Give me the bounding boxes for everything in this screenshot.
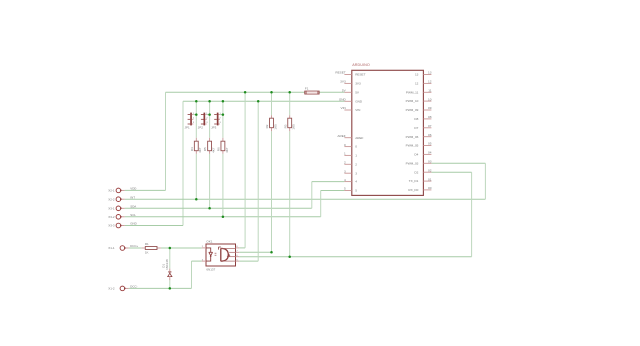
svg-text:01: 01 [428,177,432,181]
svg-text:12: 12 [415,81,419,85]
junction [208,100,211,103]
wire SCL row [125,216,321,218]
svg-text:5: 5 [355,189,357,193]
OK1 pin 7 [236,251,240,253]
ARDUINO pin 3V3 [340,80,361,86]
svg-text:3: 3 [344,169,346,173]
junction [195,100,198,103]
resistor R5 [203,138,215,154]
svg-text:PWM_10: PWM_10 [406,99,419,103]
svg-text:D8: D8 [414,117,418,121]
svg-text:X3-2: X3-2 [108,215,115,219]
svg-text:ARDUINO: ARDUINO [352,63,370,67]
ARDUINO pin RESET [335,71,365,77]
ARDUINO pin D8 (08) [414,115,431,121]
connector pad X3-1 net SDA [108,204,136,210]
wire VDD riser [165,92,167,190]
svg-text:PWM_11: PWM_11 [406,90,419,94]
svg-text:PWM_06: PWM_06 [406,135,419,139]
svg-text:10: 10 [428,97,432,101]
OK1 pin 8 [236,247,240,249]
wire R3 top [289,92,291,115]
wire R2 bottom to opto pin7 [271,131,273,252]
svg-text:GND: GND [130,222,136,226]
wire DCC+ pad to R1 [129,247,142,249]
OK1 internal gate [221,248,229,261]
wire VDD row [125,189,166,191]
OK1 pin 2 [202,247,206,249]
junction [195,198,198,201]
optocoupler U OK1 [202,240,240,272]
junction [288,255,291,258]
svg-text:X2-1: X2-1 [108,189,115,193]
svg-text:5V: 5V [355,90,360,94]
svg-text:JP2: JP2 [198,126,204,130]
ARDUINO pin D7 (07) [414,124,431,130]
svg-text:TX_D1: TX_D1 [409,179,419,183]
wire SCL riser [320,191,322,217]
svg-text:X1-1: X1-1 [108,246,115,250]
svg-text:D7: D7 [414,126,418,130]
ARDUINO pin GND [339,98,363,104]
svg-text:OK1: OK1 [206,240,212,244]
ARDUINO pin D2 (02) [414,168,431,174]
svg-text:R2: R2 [265,124,269,128]
ARDUINO pin 2 [344,161,357,167]
svg-text:08: 08 [428,115,432,119]
svg-text:4K7: 4K7 [225,147,229,153]
svg-text:11: 11 [428,88,431,92]
wire column 2 upper [209,101,211,138]
ARDUINO pin RX_D0 (00) [408,186,431,192]
svg-text:0: 0 [355,145,357,149]
ARDUINO pin 0 [344,143,357,149]
svg-text:3: 3 [355,171,357,175]
wire arduino pin 02 run [431,171,471,173]
svg-text:INT: INT [130,195,135,199]
wire DCC- to opto pin3 [192,260,202,262]
connector pad X3-3 net GND [108,222,136,228]
ARDUINO pin D4 (04) [414,151,431,157]
wire arduino pin 02 drop [471,172,473,257]
svg-text:3V3: 3V3 [355,82,361,86]
ARDUINO pin PWM_10 (10) [406,97,432,103]
svg-text:4K7: 4K7 [212,147,216,153]
wire column 1 upper [195,101,197,138]
wire opto pin5 riser to GND rail [257,101,259,261]
wire DCC- riser [191,261,193,288]
svg-text:F1: F1 [305,86,309,90]
svg-text:SCL: SCL [130,213,136,217]
svg-text:2: 2 [206,118,208,120]
svg-text:5: 5 [344,187,346,191]
ARDUINO pin PWM_11 (11) [406,88,432,94]
wire JP1 pin1 tap [193,114,196,116]
resistor R2 [265,115,277,131]
junction [257,100,260,103]
wire opto pin6 run to arduino 02 loop [239,256,471,258]
ARDUINO pin 4 [344,178,357,184]
svg-text:2: 2 [355,162,357,166]
OK1 internal LED [206,248,213,261]
ARDUINO pin 1 [344,152,357,158]
junction [208,207,211,210]
svg-text:VDD: VDD [130,187,136,191]
module U ARDUINO [352,63,424,195]
svg-text:RESET: RESET [355,73,365,77]
svg-text:JP1: JP1 [185,126,191,130]
diode D1 [161,259,172,280]
svg-text:04: 04 [428,151,432,155]
wire arduino pin 03 run [431,162,485,164]
wire R3 bottom to opto pin6 line [289,131,291,257]
svg-text:PWM_09: PWM_09 [406,108,419,112]
svg-text:1K5: 1K5 [273,124,277,130]
svg-text:VIN: VIN [355,108,360,112]
svg-text:VIN: VIN [341,106,346,110]
wire column 2 lower [209,154,211,209]
fuse F1 [305,86,320,94]
jumper JP1 [185,113,195,130]
wire D1 anode drop [169,280,171,288]
svg-text:D4: D4 [414,153,418,157]
ARDUINO pin 3 [344,169,357,175]
ARDUINO pin 5V [342,89,360,95]
svg-text:R5: R5 [203,147,207,151]
ARDUINO pin PWM_03 (03) [406,160,432,166]
wire column 3 lower [222,154,224,217]
OK1 pin 6 [236,256,240,258]
svg-text:AREF: AREF [355,136,363,140]
resistor R3 [283,115,295,131]
svg-text:PWM_05: PWM_05 [406,144,419,148]
svg-text:09: 09 [428,106,432,110]
svg-text:03: 03 [428,160,432,164]
svg-text:AREF: AREF [337,134,345,138]
svg-text:X2-2: X2-2 [108,197,115,201]
connector pad X2-1 net VDD [108,187,136,193]
svg-text:4K7: 4K7 [198,147,202,153]
svg-text:4: 4 [355,180,357,184]
svg-text:13: 13 [415,73,419,77]
junction [244,91,247,94]
svg-text:2: 2 [344,161,346,165]
wire SDA row [125,207,312,209]
svg-text:D2: D2 [414,170,418,174]
svg-text:JP3: JP3 [211,126,217,130]
resistor R6 [217,138,229,154]
svg-text:12: 12 [428,80,432,84]
wire SDA riser [311,182,313,209]
svg-text:13: 13 [428,71,432,75]
wire D1 cathode riser [169,248,171,269]
wire JP2 pin1 tap [207,114,210,116]
junction [208,113,211,116]
jumper JP2 [198,113,208,130]
wire R1 to opto pin2 [161,247,202,249]
svg-text:3: 3 [220,122,222,124]
svg-text:1: 1 [344,152,346,156]
connector pad X1-2 net DCC- [108,285,137,291]
svg-text:X3-1: X3-1 [108,206,115,210]
junction [222,216,225,219]
svg-text:R1: R1 [145,242,149,246]
svg-text:R3: R3 [283,124,287,128]
svg-text:07: 07 [428,124,432,128]
wire GND rail [183,100,344,102]
wire R2 top [271,92,273,115]
svg-text:RESET: RESET [335,71,345,75]
ARDUINO pin VIN [341,106,361,112]
svg-text:3: 3 [206,122,208,124]
wire SCL to pin 5 [321,190,345,192]
wire arduino pin 03 drop to INT row [484,163,486,199]
ARDUINO pin 5 [344,187,357,193]
ARDUINO pin PWM_05 (05) [406,142,432,148]
jumper JP3 [211,113,221,130]
wire 5V rail fuse to arduino 5V pin [319,91,344,93]
wire opto pin7 run [239,251,271,253]
connector pad X2-2 net INT [108,195,135,201]
svg-text:R6: R6 [217,147,221,151]
wire column 3 upper [222,101,224,138]
wire DCC- row [129,287,192,289]
OK1 pin 3 [202,260,206,262]
svg-text:DCC+: DCC+ [130,244,138,248]
wire column 1 lower [195,154,197,199]
svg-text:RX_D0: RX_D0 [408,188,418,192]
junction [270,91,273,94]
svg-text:SDA: SDA [130,204,136,208]
junction [169,247,172,250]
OK1 pin 5 [236,260,240,262]
svg-text:1: 1 [355,154,357,158]
svg-text:4: 4 [344,178,346,182]
wire JP3 pin1 tap [220,114,223,116]
svg-text:6N137: 6N137 [206,267,215,271]
svg-text:X3-3: X3-3 [108,224,115,228]
ARDUINO pin PWM_06 (06) [406,133,432,139]
svg-text:X1-2: X1-2 [108,287,115,291]
ARDUINO pin TX_D1 (01) [409,177,432,183]
wire opto pin8 stub run [239,247,245,249]
resistor R1 [142,242,161,254]
ARDUINO pin AREF [337,134,363,140]
wire opto pin8 riser to 5V rail [244,92,246,248]
junction [222,113,225,116]
svg-text:1K: 1K [145,251,149,255]
svg-text:2: 2 [193,118,195,120]
resistor R4 [190,138,202,154]
svg-text:2: 2 [220,118,222,120]
svg-text:GND: GND [339,98,347,102]
svg-text:0: 0 [344,143,346,147]
junction [270,251,273,254]
ARDUINO pin 13 (13) [415,71,432,77]
wire GND row [125,225,183,227]
wire SDA to pin 4 [312,181,345,183]
junction [222,100,225,103]
svg-text:06: 06 [428,133,432,137]
svg-text:1N4148: 1N4148 [165,259,169,270]
connector pad X1-1 net DCC+ [108,244,138,250]
junction [169,287,172,290]
svg-text:3: 3 [193,122,195,124]
wire 5V rail left of fuse [166,91,305,93]
svg-text:05: 05 [428,142,432,146]
connector pad X3-2 net SCL [108,213,136,219]
svg-text:02: 02 [428,168,432,172]
svg-text:1K5: 1K5 [292,124,296,130]
svg-text:PWM_03: PWM_03 [406,161,419,165]
svg-text:00: 00 [428,186,432,190]
junction [195,113,198,116]
svg-text:R4: R4 [190,147,194,151]
ARDUINO pin PWM_09 (09) [406,106,432,112]
wire opto pin5 run [239,260,258,262]
wire GND riser [182,101,184,225]
svg-text:GND: GND [355,99,363,103]
svg-text:DCC-: DCC- [130,285,137,289]
ARDUINO pin 12 (12) [415,80,432,86]
junction [288,91,291,94]
svg-text:3V3: 3V3 [340,80,346,84]
wire INT row [125,198,486,200]
